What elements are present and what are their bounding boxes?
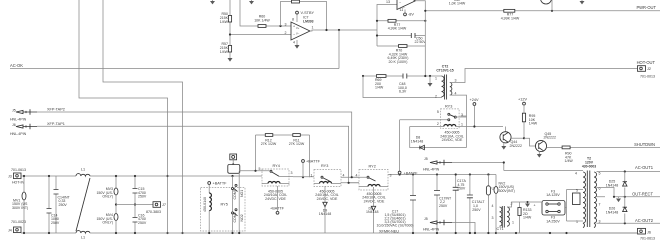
svg-text:AC-OUT1: AC-OUT1 [635, 165, 654, 170]
svg-text:J2: J2 [647, 67, 651, 71]
svg-text:4,99K 1/4W: 4,99K 1/4W [388, 27, 407, 31]
svg-text:-8V: -8V [408, 13, 414, 17]
svg-text:HOT-IN: HOT-IN [12, 180, 24, 184]
svg-text:V-STBY: V-STBY [301, 11, 315, 15]
svg-text:150V: 150V [457, 187, 466, 191]
svg-text:1: 1 [512, 221, 514, 225]
svg-text:J7: J7 [162, 203, 166, 207]
svg-text:SHUTDWN: SHUTDWN [634, 142, 655, 147]
svg-text:22 50V: 22 50V [415, 40, 427, 44]
svg-text:L1: L1 [81, 235, 85, 239]
svg-text:RY5: RY5 [221, 203, 228, 207]
svg-text:RY2: RY2 [369, 165, 376, 169]
svg-text:2: 2 [435, 94, 437, 98]
svg-text:J5: J5 [424, 157, 428, 161]
svg-text:10K 1/4W: 10K 1/4W [254, 18, 270, 22]
svg-text:NO2: NO2 [240, 214, 244, 221]
svg-text:1N4148: 1N4148 [319, 212, 331, 216]
svg-text:COM2: COM2 [233, 212, 237, 222]
svg-text:XFP-TAP2: XFP-TAP2 [47, 107, 65, 111]
svg-text:L1: L1 [81, 168, 85, 172]
svg-text:AC-OK: AC-OK [10, 63, 23, 68]
svg-text:6: 6 [599, 186, 601, 190]
svg-text:J3: J3 [8, 174, 12, 178]
svg-text:20 K (100V): 20 K (100V) [389, 60, 408, 64]
svg-text:J5: J5 [424, 217, 428, 221]
svg-text:J6: J6 [12, 123, 16, 127]
svg-text:1A 125V: 1A 125V [546, 193, 560, 197]
svg-text:1/4W: 1/4W [529, 122, 538, 126]
svg-text:1/4W: 1/4W [565, 159, 574, 163]
svg-text:RY4: RY4 [273, 164, 280, 168]
svg-text:J5: J5 [12, 108, 16, 112]
svg-text:ONLY): ONLY) [102, 221, 113, 225]
svg-text:4: 4 [492, 204, 494, 208]
svg-text:5: 5 [437, 110, 439, 114]
svg-text:3: 3 [492, 216, 494, 220]
svg-text:V+: V+ [296, 26, 300, 30]
svg-text:4: 4 [293, 41, 295, 45]
svg-text:3: 3 [455, 79, 457, 83]
svg-text:870-3803: 870-3803 [146, 210, 161, 214]
svg-text:1N4148: 1N4148 [606, 210, 618, 214]
svg-text:1: 1 [461, 122, 463, 126]
svg-text:250V: 250V [138, 195, 147, 199]
svg-text:4: 4 [343, 173, 345, 177]
svg-text:24VDC, VDE: 24VDC, VDE [265, 197, 286, 201]
svg-text:HOT-OUT: HOT-OUT [637, 60, 656, 65]
svg-text:+12V: +12V [518, 98, 527, 102]
svg-text:1,0K 1/4W: 1,0K 1/4W [449, 2, 466, 6]
svg-text:2: 2 [285, 31, 287, 35]
svg-text:3: 3 [285, 23, 287, 27]
svg-text:24VDC, VDE: 24VDC, VDE [317, 197, 338, 201]
svg-text:5: 5 [599, 171, 601, 175]
svg-text:+: + [534, 204, 536, 208]
svg-text:27K 1/2W: 27K 1/2W [261, 142, 277, 146]
svg-text:24VDC, VDE: 24VDC, VDE [442, 138, 463, 142]
svg-text:AC-OUT2: AC-OUT2 [635, 218, 654, 223]
svg-text:300V(INT): 300V(INT) [499, 189, 515, 193]
svg-text:250V: 250V [59, 203, 68, 207]
svg-text:300V INT): 300V INT) [12, 206, 28, 210]
svg-text:3: 3 [291, 171, 293, 175]
svg-text:4: 4 [356, 173, 358, 177]
svg-text:3: 3 [390, 173, 392, 177]
svg-text:450-0140: 450-0140 [203, 197, 207, 212]
svg-text:1/4W: 1/4W [220, 50, 229, 54]
svg-text:XFMR-NEU: XFMR-NEU [379, 229, 399, 233]
svg-text:430-0003: 430-0003 [582, 165, 596, 169]
svg-text:V−: V− [296, 32, 300, 36]
svg-text:1: 1 [576, 220, 578, 224]
svg-text:HNL-4PIN: HNL-4PIN [423, 228, 440, 232]
svg-text:CT10V1-15: CT10V1-15 [436, 69, 453, 73]
svg-text:−: − [399, 1, 401, 5]
svg-text:1N4148: 1N4148 [606, 183, 618, 187]
svg-text:3: 3 [461, 113, 463, 117]
svg-text:250V: 250V [439, 204, 448, 208]
svg-text:250V: 250V [138, 221, 147, 225]
svg-text:13: 13 [386, 0, 390, 4]
svg-text:+BATTF: +BATTF [213, 181, 228, 185]
svg-text:RY3: RY3 [321, 164, 328, 168]
svg-text:2: 2 [437, 122, 439, 126]
svg-text:1: 1 [312, 26, 314, 30]
svg-text:1: 1 [435, 76, 437, 80]
svg-text:HNL-4PIN: HNL-4PIN [423, 168, 440, 172]
svg-text:NO1: NO1 [240, 190, 244, 197]
svg-text:+BATTF: +BATTF [404, 171, 419, 175]
svg-text:250V: 250V [472, 208, 481, 212]
svg-text:HNL-4PIN: HNL-4PIN [10, 132, 27, 136]
svg-text:+24V: +24V [470, 98, 479, 102]
svg-text:CT1: CT1 [497, 227, 504, 231]
svg-text:701-0613: 701-0613 [640, 236, 655, 240]
svg-text:XFP-TAP1: XFP-TAP1 [47, 122, 65, 126]
svg-text:1/4W: 1/4W [523, 216, 532, 220]
svg-text:+: + [293, 25, 295, 29]
svg-text:8: 8 [292, 18, 294, 22]
svg-text:701-0013: 701-0013 [640, 75, 655, 79]
svg-text:701-0613: 701-0613 [11, 168, 26, 172]
svg-text:10,0/150VAC (SU7000): 10,0/150VAC (SU7000) [376, 224, 413, 228]
svg-text:LM393: LM393 [303, 20, 314, 24]
svg-text:11: 11 [400, 8, 404, 12]
svg-text:5: 5 [259, 167, 261, 171]
svg-text:250V: 250V [51, 221, 60, 225]
svg-text:1A 250V: 1A 250V [546, 219, 560, 223]
svg-text:1N4148: 1N4148 [366, 210, 378, 214]
svg-text:24VDC, VDE: 24VDC, VDE [364, 199, 385, 203]
svg-text:+BATTF: +BATTF [306, 159, 321, 163]
svg-text:6,3V: 6,3V [399, 90, 407, 94]
svg-text:1: 1 [311, 173, 313, 177]
svg-text:J4: J4 [8, 228, 12, 232]
svg-text:OUT-RECT: OUT-RECT [632, 192, 653, 197]
svg-text:ONLY): ONLY) [102, 195, 113, 199]
svg-text:2N2222: 2N2222 [544, 136, 556, 140]
svg-text:−: − [293, 33, 295, 37]
svg-text:7: 7 [599, 203, 601, 207]
svg-text:4,99K 1/4W: 4,99K 1/4W [501, 16, 520, 20]
svg-text:HNL-4PIN: HNL-4PIN [10, 118, 27, 122]
svg-text:27K 1/2W: 27K 1/2W [289, 142, 305, 146]
svg-text:2N2222: 2N2222 [510, 144, 522, 148]
svg-text:1/4W: 1/4W [220, 20, 229, 24]
svg-text:4: 4 [575, 172, 577, 176]
svg-text:RY3: RY3 [445, 105, 452, 109]
svg-text:COM1: COM1 [233, 189, 237, 199]
svg-text:5: 5 [576, 189, 578, 193]
svg-text:PWR-OUT: PWR-OUT [636, 5, 656, 10]
svg-text:1N4148: 1N4148 [411, 139, 423, 143]
svg-text:J6: J6 [647, 230, 651, 234]
svg-text:1/4W: 1/4W [375, 86, 384, 90]
